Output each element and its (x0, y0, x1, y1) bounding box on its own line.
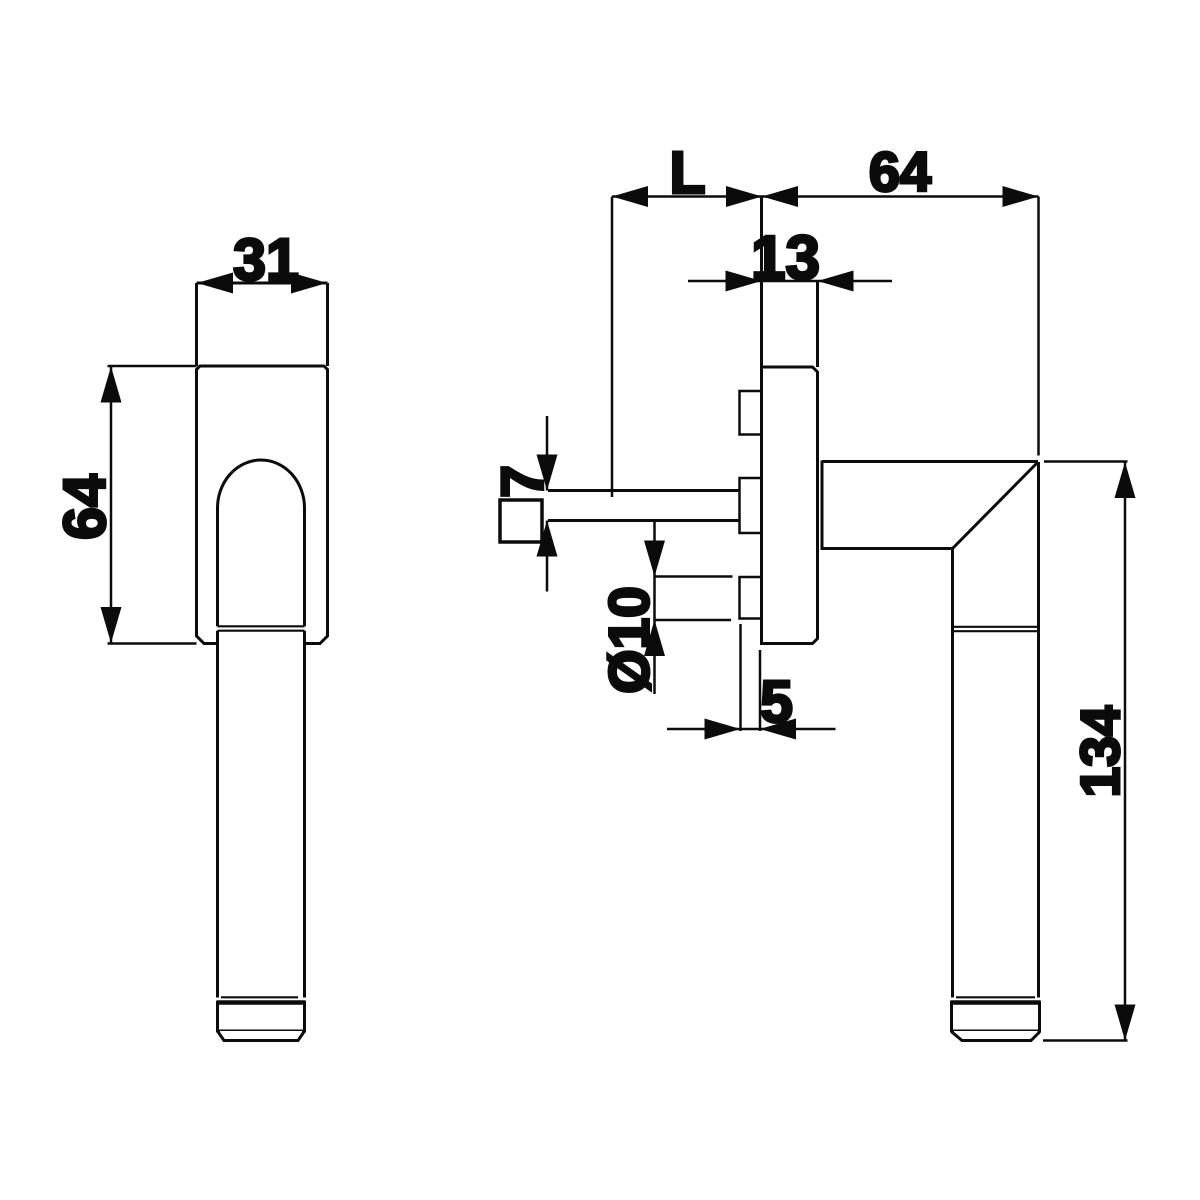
svg-text:64: 64 (52, 474, 118, 540)
dimension 5 left arrow (705, 719, 741, 740)
svg-text:7: 7 (490, 465, 556, 498)
dimension L and 64 top line (612, 195, 1039, 198)
dimension 7 text (490, 465, 556, 498)
dimension 64 left line (110, 366, 113, 644)
dimension 31 right arrow (291, 273, 327, 294)
dimension 64 top right arrow (1003, 186, 1039, 207)
svg-text:5: 5 (760, 669, 793, 735)
svg-text:64: 64 (869, 140, 931, 203)
front view grip cap (217, 1003, 306, 1041)
dimension D10 lines (655, 521, 733, 695)
svg-text:L: L (669, 140, 705, 206)
side view neck (762, 197, 818, 368)
dimension D10 down arrow (644, 541, 665, 577)
dimension 134 text (1069, 705, 1131, 797)
dimension 7 up arrow (537, 521, 558, 557)
side view fixing tab bottom (740, 577, 762, 619)
dimension 64 left up arrow (101, 367, 122, 403)
dimension D10 up arrow (644, 620, 665, 656)
svg-text:13: 13 (751, 224, 820, 293)
side view collar line (821, 461, 824, 551)
front view handle arch (218, 460, 305, 626)
dimension 5 right arrow (760, 719, 796, 740)
dimension 13 line (688, 280, 892, 283)
side view grip bottom line (956, 996, 1035, 998)
side view arm miter line (953, 462, 1039, 549)
svg-text:Ø10: Ø10 (598, 586, 662, 694)
dimension 13 right arrow (818, 271, 854, 292)
dimension L left arrow (612, 186, 648, 207)
dimension 64 top left arrow (762, 186, 798, 207)
side view spindle boss tab (740, 478, 762, 533)
side view fixing tab top (740, 391, 762, 435)
svg-text:31: 31 (233, 227, 299, 293)
dimension 134 up arrow (1115, 462, 1136, 498)
dimension 31 line (197, 282, 328, 285)
dimension 64 left extension lines (108, 366, 197, 644)
side view grip cap (951, 1003, 1041, 1041)
dimension L right arrow (726, 186, 762, 207)
dimension 13 left arrow (726, 271, 762, 292)
dimension 64 left down arrow (101, 607, 122, 643)
front view neck (197, 283, 328, 366)
dimension 134 lines (1043, 462, 1128, 1041)
dimension 64 left text (52, 474, 118, 540)
side view spindle square (500, 500, 542, 542)
svg-text:134: 134 (1069, 705, 1131, 797)
dimension 7 lines (546, 416, 549, 592)
front view grip bar (218, 631, 305, 998)
dimension 31 left arrow (197, 273, 233, 294)
dimension 64 right extension (1037, 197, 1040, 456)
side view joint lines (953, 627, 1039, 631)
front view joint line (218, 625, 305, 627)
side view grip edges (953, 462, 1039, 998)
front view rosette plate (197, 366, 328, 644)
dimension 5 lines (667, 624, 836, 731)
dimension 7 down arrow (537, 455, 558, 491)
dimension D10 text (598, 586, 662, 694)
side view handle arm (822, 462, 1038, 549)
dimension L left extension (611, 197, 614, 498)
side view spindle rod (548, 491, 740, 521)
side view rosette plate (762, 367, 818, 644)
dimension 134 down arrow (1115, 1005, 1136, 1041)
